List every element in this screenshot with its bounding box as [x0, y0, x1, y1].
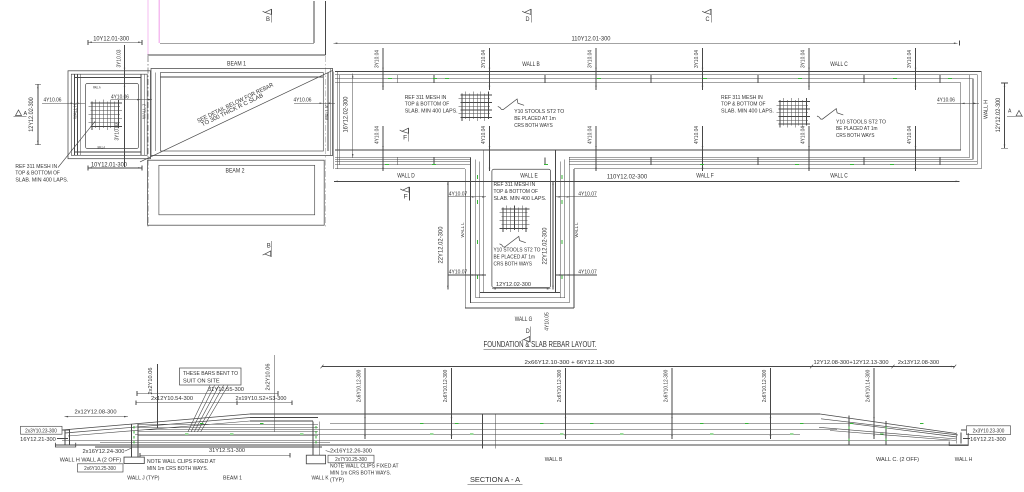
- svg-text:4Y10.05: 4Y10.05: [545, 312, 551, 331]
- svg-text:CRS BOTH WAYS: CRS BOTH WAYS: [514, 123, 553, 129]
- svg-text:WALL G: WALL G: [515, 316, 533, 323]
- svg-text:B: B: [267, 243, 271, 249]
- svg-text:WALL B: WALL B: [522, 61, 540, 68]
- svg-text:WALL J (TYP): WALL J (TYP): [127, 475, 159, 481]
- svg-text:110Y12.02-300: 110Y12.02-300: [607, 174, 648, 181]
- svg-text:REF 311 MESH IN: REF 311 MESH IN: [15, 164, 57, 170]
- svg-text:4Y10.06: 4Y10.06: [294, 98, 313, 104]
- svg-text:TOP & BOTTOM OF: TOP & BOTTOM OF: [15, 171, 60, 177]
- svg-text:2x6Y10.12-300: 2x6Y10.12-300: [357, 370, 363, 403]
- svg-text:4Y10.07: 4Y10.07: [578, 191, 597, 197]
- svg-text:TOP & BOTTOM OF: TOP & BOTTOM OF: [494, 189, 539, 195]
- svg-text:WALL H: WALL H: [72, 104, 78, 119]
- svg-text:WALL H: WALL H: [983, 100, 989, 119]
- svg-text:BEAM 1: BEAM 1: [227, 60, 246, 67]
- svg-text:SLAB. MIN 400 LAPS.: SLAB. MIN 400 LAPS.: [405, 108, 458, 114]
- svg-text:2x12Y10.54-300: 2x12Y10.54-300: [151, 396, 194, 402]
- svg-text:NOTE WALL CLIPS FIXED AT: NOTE WALL CLIPS FIXED AT: [147, 459, 216, 465]
- svg-text:WALL A: WALL A: [97, 145, 105, 149]
- svg-text:2x7Y10.25-300: 2x7Y10.25-300: [335, 457, 367, 463]
- svg-text:2x6Y10.12-300: 2x6Y10.12-300: [762, 370, 768, 403]
- svg-text:10Y12.01-300: 10Y12.01-300: [93, 35, 129, 42]
- svg-text:2x6Y10.25-300: 2x6Y10.25-300: [84, 466, 116, 472]
- svg-text:4Y10.04: 4Y10.04: [801, 126, 807, 144]
- svg-text:F: F: [403, 136, 407, 142]
- svg-text:2x16Y12.24-300: 2x16Y12.24-300: [83, 449, 125, 455]
- svg-text:WALL C: WALL C: [830, 61, 848, 68]
- svg-text:WALL H: WALL H: [955, 457, 973, 463]
- svg-text:NOTE WALL CLIPS FIXED AT: NOTE WALL CLIPS FIXED AT: [330, 464, 399, 470]
- svg-text:31Y12.S1-300: 31Y12.S1-300: [209, 448, 246, 454]
- svg-text:4Y10.07: 4Y10.07: [449, 269, 468, 275]
- svg-text:4Y10.06: 4Y10.06: [44, 97, 63, 103]
- svg-text:2x2Y10.06: 2x2Y10.06: [266, 364, 272, 391]
- svg-text:4Y10.07: 4Y10.07: [578, 269, 597, 275]
- svg-text:B: B: [266, 17, 270, 23]
- svg-text:3Y10.04: 3Y10.04: [694, 50, 700, 68]
- svg-text:A: A: [1008, 109, 1012, 115]
- svg-text:WALL F: WALL F: [696, 173, 714, 180]
- svg-text:4Y10.04: 4Y10.04: [694, 126, 700, 144]
- svg-text:SLAB. MIN 400 LAPS.: SLAB. MIN 400 LAPS.: [721, 108, 774, 114]
- svg-text:WALL C. (2 OFF): WALL C. (2 OFF): [876, 457, 919, 463]
- svg-text:12Y12.02-300: 12Y12.02-300: [28, 97, 35, 132]
- svg-text:REF 311 MESH IN: REF 311 MESH IN: [721, 95, 763, 101]
- svg-text:WALL A: WALL A: [93, 85, 101, 89]
- svg-text:MIN 1m CRS BOTH WAYS.: MIN 1m CRS BOTH WAYS.: [147, 466, 208, 472]
- svg-text:16Y12.21-300: 16Y12.21-300: [970, 437, 1006, 443]
- svg-text:REF 311 MESH IN: REF 311 MESH IN: [494, 182, 536, 188]
- svg-text:F: F: [404, 195, 408, 201]
- svg-text:Y10 STOOLS ST2 TO: Y10 STOOLS ST2 TO: [514, 109, 564, 115]
- svg-text:4Y10.04: 4Y10.04: [481, 126, 487, 144]
- svg-text:CRS BOTH WAYS: CRS BOTH WAYS: [836, 133, 875, 139]
- svg-text:2x3Y10.23-300: 2x3Y10.23-300: [25, 428, 57, 434]
- svg-text:16Y12.21-300: 16Y12.21-300: [20, 437, 56, 443]
- svg-text:2x13Y12.08-300: 2x13Y12.08-300: [898, 360, 940, 366]
- svg-text:2x66Y12.10-300 + 66Y12.11-300: 2x66Y12.10-300 + 66Y12.11-300: [525, 360, 616, 366]
- svg-text:4Y10.04: 4Y10.04: [375, 126, 381, 144]
- svg-text:SUIT ON SITE: SUIT ON SITE: [183, 378, 220, 384]
- svg-text:4Y10.04: 4Y10.04: [907, 126, 913, 144]
- svg-text:2x6Y10.12-300: 2x6Y10.12-300: [557, 370, 563, 403]
- svg-text:2x12Y12.08-300: 2x12Y12.08-300: [75, 409, 118, 415]
- svg-text:4Y10.07: 4Y10.07: [449, 191, 468, 197]
- svg-text:3Y10.04: 3Y10.04: [588, 50, 594, 68]
- svg-text:12Y12.02-300: 12Y12.02-300: [995, 97, 1002, 132]
- svg-text:31Y12.55-300: 31Y12.55-300: [208, 387, 245, 393]
- svg-text:WALL K: WALL K: [325, 104, 331, 120]
- svg-text:WALL L: WALL L: [460, 222, 466, 237]
- svg-text:4Y10.06: 4Y10.06: [937, 98, 956, 104]
- svg-text:WALL L: WALL L: [574, 222, 580, 237]
- svg-text:BE PLACED AT 1m: BE PLACED AT 1m: [514, 116, 556, 122]
- svg-text:4Y10.04: 4Y10.04: [588, 126, 594, 144]
- svg-text:BE PLACED AT 1m: BE PLACED AT 1m: [494, 255, 536, 261]
- svg-text:D: D: [526, 329, 531, 335]
- svg-text:2x19Y10.S2+S3-300: 2x19Y10.S2+S3-300: [236, 396, 288, 402]
- svg-text:SLAB. MIN 400 LAPS.: SLAB. MIN 400 LAPS.: [15, 177, 68, 183]
- svg-text:3Y10.04: 3Y10.04: [481, 50, 487, 68]
- svg-text:SECTION A - A: SECTION A - A: [470, 475, 520, 484]
- svg-text:WALL K: WALL K: [312, 475, 329, 481]
- svg-text:THESE BARS BENT TO: THESE BARS BENT TO: [183, 371, 239, 377]
- svg-text:C: C: [706, 17, 711, 23]
- svg-text:2x6Y10.12-300: 2x6Y10.12-300: [664, 370, 670, 403]
- svg-text:BEAM 1: BEAM 1: [223, 475, 242, 481]
- svg-text:TOP & BOTTOM OF: TOP & BOTTOM OF: [721, 102, 766, 108]
- svg-text:16Y12.02-300: 16Y12.02-300: [342, 96, 349, 132]
- svg-text:Y10 STOOLS ST2 TO: Y10 STOOLS ST2 TO: [836, 119, 886, 125]
- svg-text:CRS BOTH WAYS: CRS BOTH WAYS: [494, 261, 533, 267]
- svg-text:22Y12.02-300: 22Y12.02-300: [542, 227, 549, 264]
- svg-text:2x16Y12.26-300: 2x16Y12.26-300: [330, 448, 372, 454]
- svg-text:BEAM 2: BEAM 2: [226, 167, 245, 174]
- svg-text:3Y10.03: 3Y10.03: [114, 123, 120, 141]
- svg-text:3Y10.04: 3Y10.04: [907, 50, 913, 68]
- svg-text:WALL C: WALL C: [830, 173, 848, 180]
- svg-text:MIN 1m CRS BOTH WAYS.: MIN 1m CRS BOTH WAYS.: [330, 471, 391, 477]
- svg-text:WALL H WALL A (2 OFF): WALL H WALL A (2 OFF): [60, 457, 122, 463]
- svg-text:D: D: [526, 17, 531, 23]
- svg-text:22Y12.02-300: 22Y12.02-300: [438, 226, 445, 263]
- svg-text:Y10 STOOLS ST2 TO: Y10 STOOLS ST2 TO: [494, 248, 541, 254]
- svg-text:12Y12.08-300+12Y12.13-300: 12Y12.08-300+12Y12.13-300: [814, 360, 890, 366]
- svg-text:3Y10.04: 3Y10.04: [375, 50, 381, 68]
- svg-text:WALL J: WALL J: [142, 103, 148, 119]
- svg-text:TOP & BOTTOM OF: TOP & BOTTOM OF: [405, 102, 450, 108]
- svg-text:WALL E: WALL E: [520, 173, 538, 180]
- svg-text:3Y10.04: 3Y10.04: [801, 50, 807, 68]
- svg-text:WALL D: WALL D: [397, 173, 415, 180]
- svg-text:3Y10.03: 3Y10.03: [116, 50, 122, 68]
- svg-text:2x3Y10.23-300: 2x3Y10.23-300: [973, 428, 1005, 434]
- svg-text:2x2Y10.06: 2x2Y10.06: [148, 368, 154, 395]
- svg-text:12Y12.02-300: 12Y12.02-300: [496, 282, 532, 288]
- svg-text:10Y12.01-300: 10Y12.01-300: [91, 161, 127, 168]
- svg-text:WALL B: WALL B: [545, 457, 563, 463]
- svg-text:BE PLACED AT 1m: BE PLACED AT 1m: [836, 126, 878, 132]
- svg-text:FOUNDATION & SLAB REBAR LAYOUT: FOUNDATION & SLAB REBAR LAYOUT.: [484, 339, 597, 349]
- svg-text:110Y12.01-300: 110Y12.01-300: [572, 35, 611, 42]
- svg-text:(TYP): (TYP): [330, 478, 344, 484]
- svg-text:SLAB. MIN 400 LAPS.: SLAB. MIN 400 LAPS.: [494, 196, 547, 202]
- svg-text:2x6Y10.14-300: 2x6Y10.14-300: [866, 370, 872, 403]
- svg-text:REF 311 MESH IN: REF 311 MESH IN: [405, 95, 447, 101]
- svg-text:2x6Y10.12-300: 2x6Y10.12-300: [443, 370, 449, 403]
